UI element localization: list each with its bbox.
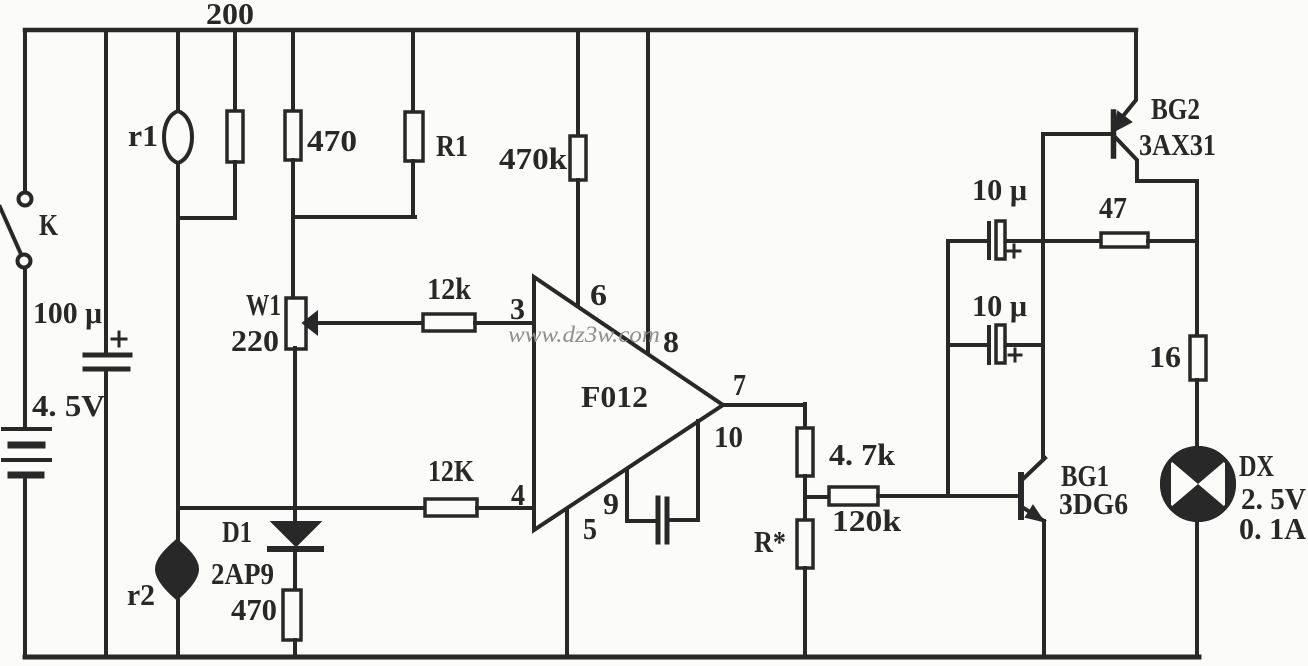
svg-text:10: 10	[714, 419, 743, 454]
svg-text:8: 8	[663, 324, 679, 359]
svg-text:10 μ: 10 μ	[972, 172, 1027, 207]
svg-text:470k: 470k	[499, 141, 568, 176]
svg-text:4. 7k: 4. 7k	[829, 437, 896, 472]
svg-text:R*: R*	[754, 524, 786, 559]
svg-text:7: 7	[733, 367, 746, 402]
svg-text:12K: 12K	[428, 453, 474, 488]
svg-text:16: 16	[1149, 339, 1181, 374]
svg-text:r1: r1	[128, 118, 158, 153]
svg-text:4: 4	[511, 477, 525, 512]
svg-text:DX: DX	[1239, 448, 1274, 483]
svg-text:www.dz3w.com: www.dz3w.com	[508, 322, 660, 347]
svg-text:10 μ: 10 μ	[972, 288, 1027, 323]
svg-text:6: 6	[590, 277, 607, 312]
svg-text:3: 3	[510, 291, 525, 326]
svg-text:470: 470	[231, 592, 277, 627]
svg-text:BG2: BG2	[1151, 91, 1200, 126]
svg-text:W1: W1	[246, 287, 281, 322]
svg-text:470: 470	[307, 123, 357, 158]
svg-text:R1: R1	[436, 128, 468, 163]
svg-text:3DG6: 3DG6	[1059, 486, 1128, 521]
svg-text:100 μ: 100 μ	[33, 295, 102, 330]
svg-text:9: 9	[603, 486, 619, 521]
svg-text:12k: 12k	[427, 271, 472, 306]
svg-text:5: 5	[583, 511, 597, 546]
svg-text:220: 220	[231, 323, 279, 358]
svg-text:4. 5V: 4. 5V	[32, 388, 106, 423]
svg-text:r2: r2	[127, 577, 155, 612]
svg-text:2AP9: 2AP9	[211, 556, 274, 591]
svg-text:F012: F012	[581, 379, 648, 414]
svg-text:3AX31: 3AX31	[1139, 127, 1216, 162]
svg-text:47: 47	[1099, 190, 1127, 225]
svg-text:200: 200	[206, 0, 254, 31]
svg-text:0. 1A: 0. 1A	[1239, 511, 1307, 546]
svg-text:K: K	[39, 207, 58, 242]
svg-text:120k: 120k	[832, 503, 902, 538]
svg-text:D1: D1	[222, 514, 252, 549]
